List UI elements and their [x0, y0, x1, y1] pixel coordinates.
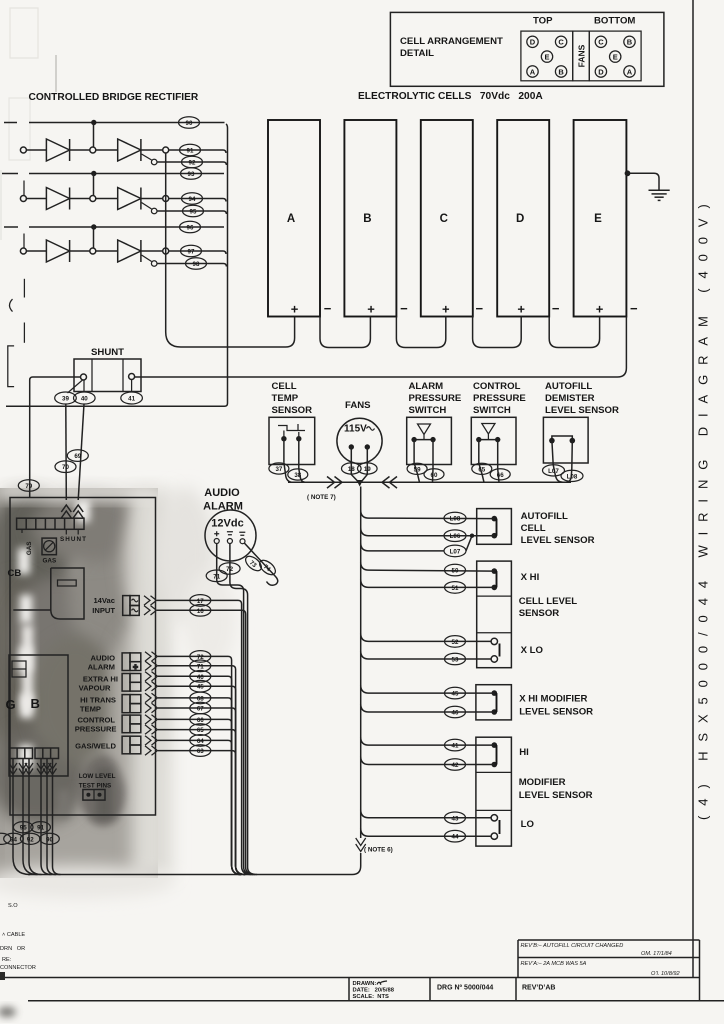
alarm pressure leads: [414, 440, 433, 483]
wire: [141, 250, 163, 252]
wire 67: [158, 708, 245, 875]
svg-text:LOW LEVEL: LOW LEVEL: [79, 773, 116, 780]
wire number oval 92: [182, 156, 203, 168]
wire 53: [361, 651, 491, 659]
svg-text:X HI MODIFIER: X HI MODIFIER: [519, 694, 587, 705]
svg-text:( NOTE 6): ( NOTE 6): [364, 847, 393, 854]
svg-text:53: 53: [452, 657, 459, 664]
wire 91: [169, 150, 226, 153]
svg-text:CONNECTOR: CONNECTOR: [0, 965, 36, 971]
svg-text:GAS/WELD: GAS/WELD: [75, 742, 116, 751]
svg-text:PRESSURE: PRESSURE: [75, 725, 117, 734]
wire 44: [361, 828, 491, 836]
fans leads: [351, 447, 367, 482]
svg-text:SHUNT: SHUNT: [60, 536, 86, 543]
svg-text:60: 60: [431, 472, 438, 479]
node circle row3: [90, 248, 96, 254]
svg-text:CELL: CELL: [521, 523, 546, 534]
wire 70 oval: [55, 461, 76, 473]
svg-text:CONTROL: CONTROL: [473, 381, 521, 392]
svg-text:HI: HI: [519, 747, 529, 758]
thyristor Q2: [118, 188, 141, 210]
wire 39 oval: [55, 392, 77, 404]
svg-text:REV’D’AB: REV’D’AB: [522, 985, 555, 992]
svg-text:94: 94: [189, 196, 196, 203]
wire 92: [157, 162, 226, 165]
shunt terminal strip: [17, 518, 84, 529]
cell arrangement: fans strip: [573, 31, 590, 81]
drawn/date/scale: [353, 981, 395, 1000]
svg-text:19: 19: [364, 466, 371, 473]
svg-text:37: 37: [275, 466, 282, 473]
svg-text:59: 59: [414, 466, 421, 473]
x hi modifier level sensor: [476, 685, 593, 720]
svg-text:ALARM: ALARM: [88, 663, 115, 672]
svg-text:D: D: [516, 213, 524, 225]
relay module: [13, 568, 84, 619]
wire 60 oval: [424, 469, 444, 480]
wire 18 oval: [342, 463, 362, 474]
cell E negative return wire to shunt: [135, 317, 627, 378]
wire 79 oval: [18, 480, 39, 492]
wire L07 oval: [543, 465, 565, 476]
svg-text:C: C: [558, 38, 564, 47]
svg-text:B: B: [627, 38, 633, 47]
wire 71: [158, 666, 245, 875]
svg-text:67: 67: [197, 706, 204, 713]
svg-text:SWITCH: SWITCH: [409, 405, 447, 416]
x lo contact: [491, 638, 543, 662]
wire 69 oval: [67, 450, 88, 462]
wire 50: [361, 562, 495, 571]
svg-text:˄ CABLE: ˄ CABLE: [2, 932, 25, 938]
title block frame: [0, 940, 724, 1001]
alarm pressure switch: [407, 381, 462, 465]
gas sensor symbol: [42, 538, 56, 564]
block labels EXTRA HI VAPOUR: [79, 675, 118, 693]
control pressure terminal block: [122, 715, 141, 733]
svg-text:L07: L07: [548, 468, 559, 475]
svg-text:E: E: [544, 52, 549, 61]
DC+ bus from thyristors to cell A: [166, 153, 295, 347]
left margin mark: [0, 972, 5, 980]
left margin notes: [0, 903, 36, 971]
shunt sense leads to ovals: [68, 380, 132, 394]
svg-text:65: 65: [478, 466, 485, 473]
svg-text:TEMP: TEMP: [80, 705, 101, 714]
scan noise texture of cabinet panel: [0, 485, 236, 898]
arrows audio alarm: [145, 652, 158, 671]
svg-text:90: 90: [186, 120, 193, 127]
autofill demister leads: [552, 441, 572, 483]
svg-text:GAS: GAS: [43, 558, 57, 565]
svg-text:LEVEL SENSOR: LEVEL SENSOR: [521, 535, 595, 546]
arrows control pressure: [145, 715, 158, 735]
wire 16: [157, 610, 255, 874]
cell B: [344, 120, 408, 317]
svg-text:95: 95: [190, 209, 197, 216]
svg-text:91: 91: [187, 148, 194, 155]
svg-text:−: −: [400, 301, 408, 316]
arrows 14Vac: [144, 596, 157, 615]
wire number oval 98: [186, 258, 207, 270]
svg-text:REV’B:– AUTOFILL CIRCUIT CHANG: REV’B:– AUTOFILL CIRCUIT CHANGED: [521, 943, 624, 949]
wire number oval 94: [182, 193, 203, 205]
svg-text:50: 50: [452, 568, 459, 575]
svg-text:CELL: CELL: [272, 381, 297, 392]
diode D1 anode terminal: [20, 147, 26, 153]
cell level sensor box: [477, 561, 578, 668]
svg-text:CB: CB: [8, 568, 22, 579]
svg-text:C: C: [598, 38, 604, 47]
hi trans temp terminal block: [122, 695, 141, 713]
svg-text:BOTTOM: BOTTOM: [594, 16, 635, 27]
wire number oval 95: [183, 205, 204, 217]
diode D2 anode stub: [23, 181, 25, 196]
wire number oval 90: [179, 117, 200, 129]
diode D2 anode terminal: [20, 196, 26, 202]
thyristor Q3: [118, 240, 141, 262]
audio alarm spare wire with hook: [244, 543, 277, 585]
cable run to note 6: [28, 853, 361, 875]
wire 37 oval: [269, 463, 289, 474]
lo contact: [491, 815, 534, 840]
node: wire 96 junction: [91, 224, 96, 229]
thyristor Q1: [118, 139, 141, 161]
svg-text:65: 65: [197, 727, 204, 734]
wire: [70, 198, 90, 200]
gas/weld terminal block: [122, 736, 141, 754]
low level test pins: [79, 773, 116, 800]
svg-text:X LO: X LO: [521, 645, 544, 656]
svg-text:95: 95: [20, 825, 27, 832]
svg-text:97: 97: [188, 249, 195, 256]
left edge bracket 2: [8, 346, 14, 387]
svg-text:17: 17: [197, 598, 204, 605]
svg-text:+: +: [442, 302, 450, 317]
lower terminal strip left: [9, 748, 32, 759]
extra hi vapour terminal block: [122, 674, 141, 692]
svg-text:14Vac: 14Vac: [93, 596, 115, 605]
svg-text:X HI: X HI: [521, 572, 540, 583]
wire: [26, 198, 46, 200]
svg-text:DETAIL: DETAIL: [400, 48, 434, 59]
node L06/L07: [470, 534, 474, 538]
svg-text:D: D: [530, 38, 536, 47]
wire: [70, 149, 90, 151]
svg-text:FANS: FANS: [345, 400, 371, 411]
svg-text:L07: L07: [450, 548, 461, 555]
svg-text:115V: 115V: [344, 424, 367, 435]
node: DC+ bus tap row2: [163, 196, 169, 202]
svg-text:G: G: [6, 697, 16, 712]
svg-text:79: 79: [25, 483, 32, 490]
phase 3 supply wire: [4, 226, 224, 228]
cell D: [497, 120, 560, 317]
block labels CONTROL PRESSURE: [75, 716, 117, 734]
svg-text:SHUNT: SHUNT: [91, 347, 124, 358]
svg-text:DEMISTER: DEMISTER: [545, 393, 595, 404]
arrows gas/weld: [145, 736, 158, 756]
svg-text:( NOTE 7): ( NOTE 7): [307, 494, 336, 501]
wire 41: [361, 737, 495, 745]
wire 73 oval: [243, 554, 264, 574]
svg-text:43: 43: [452, 815, 459, 822]
svg-text:L06: L06: [450, 533, 461, 540]
wire 52: [361, 633, 491, 641]
wire number oval 91: [180, 144, 201, 156]
wire: [141, 198, 163, 200]
cell arrangement: top stack box: [521, 31, 573, 81]
svg-text:B: B: [31, 696, 40, 711]
modifier level sensor box: [476, 737, 593, 846]
cell C: [421, 120, 484, 317]
svg-text:45: 45: [452, 691, 459, 698]
sensor bus wire: [288, 481, 571, 483]
cell temp sensor: [269, 381, 315, 465]
wire: [96, 198, 118, 200]
cell A: [268, 120, 332, 317]
wire: [26, 250, 46, 252]
14Vac terminal block: [123, 596, 140, 616]
svg-text:+: +: [367, 302, 375, 317]
wire: [96, 250, 118, 252]
svg-text:52: 52: [452, 639, 459, 646]
svg-text:CELL ARRANGEMENT: CELL ARRANGEMENT: [400, 36, 503, 47]
shunt right terminal: [129, 374, 135, 380]
svg-text:69: 69: [74, 453, 81, 460]
svg-text:38: 38: [294, 472, 301, 479]
strip tails: [22, 529, 78, 534]
wire 38 oval: [288, 469, 308, 480]
wire: [26, 149, 46, 151]
svg-text:41: 41: [452, 743, 459, 750]
cell E: [574, 120, 638, 317]
svg-text:46: 46: [197, 674, 204, 681]
node circle row1: [90, 147, 96, 153]
node: wire 93 junction: [91, 171, 96, 176]
diode D1: [46, 139, 69, 161]
svg-text:A: A: [287, 213, 295, 225]
svg-text:FANS: FANS: [577, 44, 587, 67]
wire 17: [157, 600, 251, 874]
svg-text:ALARM: ALARM: [409, 381, 444, 392]
svg-text:−: −: [630, 301, 638, 316]
wire 64: [158, 740, 241, 874]
junction arrow at bus: [356, 480, 363, 487]
wire 63: [158, 751, 245, 875]
node: wire 90 junction: [91, 120, 96, 125]
svg-text:REV’A:– 2A MCB WAS 5A: REV’A:– 2A MCB WAS 5A: [521, 961, 587, 967]
left edge stubs below rectifier: [23, 279, 25, 343]
svg-text:18: 18: [348, 466, 355, 473]
control pressure leads: [479, 440, 499, 483]
wire 43: [361, 810, 491, 818]
gate lead Q2: [142, 203, 152, 210]
wire 95: [157, 211, 226, 214]
svg-text:68: 68: [197, 695, 204, 702]
svg-text:98: 98: [193, 261, 200, 268]
svg-text:A: A: [530, 67, 536, 76]
svg-text:B: B: [363, 213, 371, 225]
svg-text:12Vdc: 12Vdc: [211, 518, 243, 530]
wire number oval 97: [181, 245, 202, 257]
arrows hi trans temp: [145, 693, 158, 713]
wire 40 oval: [74, 392, 96, 404]
wire L06: [361, 528, 495, 536]
phase 2 supply wire: [2, 173, 224, 175]
svg-text:46: 46: [452, 710, 459, 717]
svg-text:DRG Nº 5000/044: DRG Nº 5000/044: [437, 985, 493, 992]
wire L08 oval: [561, 470, 583, 481]
wire number oval 93: [181, 168, 202, 180]
node: DC+ bus tap row1: [163, 147, 169, 153]
svg-text:S.O: S.O: [8, 903, 18, 909]
note 6 exit arrow: [356, 838, 366, 852]
diode D3 anode terminal: [20, 248, 26, 254]
wire 45: [158, 686, 245, 874]
rectifier output cable bundle down and left: [6, 124, 228, 406]
fans: [337, 400, 382, 464]
wire 46: [158, 676, 241, 874]
svg-text:E: E: [613, 52, 618, 61]
control pressure switch: [471, 381, 526, 465]
svg-text:VAPOUR: VAPOUR: [79, 684, 111, 693]
audio alarm: [203, 487, 256, 561]
svg-text:B: B: [558, 67, 564, 76]
shunt left terminal: [81, 374, 87, 380]
sensor bus drop (main loom down): [360, 487, 362, 839]
svg-text:TEMP: TEMP: [272, 393, 299, 404]
bottom left corner blob: [0, 1007, 16, 1017]
svg-text:DRN OR: DRN OR: [0, 946, 25, 952]
svg-text:D: D: [598, 67, 604, 76]
wire 97: [169, 251, 226, 254]
series link cell A- to cell B+: [320, 317, 370, 348]
wire 46: [361, 704, 495, 712]
wire 65: [158, 730, 245, 875]
svg-text:−: −: [552, 301, 560, 316]
series link cell C- to cell D+: [473, 317, 522, 348]
temp sensor leads: [284, 439, 305, 483]
block labels AUDIO ALARM: [88, 654, 116, 672]
bus chevron left: [382, 477, 397, 489]
cabinet enclosure: [10, 498, 156, 816]
svg-text:LEVEL SENSOR: LEVEL SENSOR: [519, 707, 593, 718]
wire 71 oval: [206, 570, 227, 582]
wire 72 oval: [219, 563, 240, 575]
audio alarm terminal block: [122, 653, 141, 671]
hi contact: [492, 742, 530, 767]
page border right: [692, 0, 694, 978]
wire number oval 96: [180, 221, 201, 233]
svg-text:LEVEL SENSOR: LEVEL SENSOR: [545, 405, 619, 416]
svg-text:−: −: [324, 301, 332, 316]
svg-text:A: A: [627, 67, 633, 76]
14Vac input label: [92, 596, 115, 615]
shunt: [74, 347, 141, 392]
shunt sense wire pair down to panel: [66, 404, 84, 500]
wire 74 oval: [257, 558, 278, 578]
svg-text:MODIFIER: MODIFIER: [519, 777, 566, 788]
svg-text:AUDIO: AUDIO: [204, 487, 240, 499]
wire from shunt left terminal to panel: [30, 377, 81, 498]
block labels HI TRANS TEMP: [80, 696, 116, 714]
svg-text:DRAWN:: DRAWN:: [353, 981, 377, 987]
wire 68: [158, 698, 241, 875]
wire ovals under cabinet: [13, 822, 33, 833]
svg-text:SENSOR: SENSOR: [272, 405, 313, 416]
svg-text:TOP: TOP: [533, 16, 553, 27]
node circle row2: [90, 196, 96, 202]
svg-text:40: 40: [81, 396, 88, 403]
svg-text:42: 42: [452, 762, 459, 769]
svg-text:RE:: RE:: [2, 957, 12, 963]
diode D2: [46, 188, 69, 210]
wire: [96, 149, 118, 151]
svg-text:41: 41: [128, 396, 135, 403]
wire 51: [361, 579, 495, 587]
x hi contact: [492, 568, 540, 590]
svg-text:LEVEL SENSOR: LEVEL SENSOR: [519, 790, 593, 801]
wire 45: [361, 685, 495, 693]
svg-text:LO: LO: [521, 819, 535, 830]
drop to diode D3: [93, 227, 95, 248]
svg-text:O’l. 10/8/92: O’l. 10/8/92: [651, 971, 680, 977]
svg-text:72: 72: [226, 566, 233, 573]
arrow into panel (left): [61, 505, 71, 518]
gate terminal Q2: [151, 208, 157, 214]
svg-text:−: −: [476, 301, 484, 316]
wire 72: [158, 656, 241, 874]
series link cell D- to cell E+: [549, 317, 599, 348]
wire 19 oval: [358, 463, 378, 474]
cell arrangement detail box: [390, 12, 664, 86]
wire L07: [361, 536, 472, 551]
svg-text:39: 39: [62, 396, 69, 403]
svg-text:SWITCH: SWITCH: [473, 405, 511, 416]
svg-text:SCALE: NTS: SCALE: NTS: [353, 994, 390, 1000]
gate terminal Q3: [151, 261, 157, 267]
wire 98: [157, 264, 226, 267]
wire 66: [158, 719, 241, 874]
svg-text:AUTOFILL: AUTOFILL: [545, 381, 592, 392]
svg-text:(4) HSX5000/044 WIRING DIAGRAM: (4) HSX5000/044 WIRING DIAGRAM (400V): [696, 194, 711, 820]
bus chevron right: [327, 477, 342, 489]
svg-text:CONTROLLED BRIDGE RECTIFIER: CONTROLLED BRIDGE RECTIFIER: [29, 92, 199, 103]
audio alarm - wire: [230, 544, 257, 875]
svg-text:L08: L08: [450, 516, 461, 523]
svg-text:+: +: [596, 302, 604, 317]
autofill demister level sensor: [543, 381, 619, 463]
svg-text:C: C: [440, 213, 448, 225]
svg-text:93: 93: [188, 171, 195, 178]
svg-text:DATE: 20/5/88: DATE: 20/5/88: [353, 988, 395, 994]
svg-text:51: 51: [452, 585, 459, 592]
outgoing arrows below strips: [9, 763, 57, 775]
svg-text:+: +: [291, 302, 299, 317]
svg-text:TEST PINS: TEST PINS: [79, 783, 112, 790]
svg-text:66: 66: [497, 472, 504, 479]
svg-text:ELECTROLYTIC CELLS 70Vdc 2: ELECTROLYTIC CELLS 70Vdc 200A: [358, 91, 543, 102]
wire L08: [361, 510, 495, 518]
wire 65 oval: [472, 463, 492, 474]
svg-text:+: +: [517, 302, 525, 317]
cabinet outgoing wires to cable run: [13, 759, 61, 875]
svg-text:92: 92: [189, 160, 196, 167]
svg-text:91: 91: [37, 825, 44, 832]
svg-text:SENSOR: SENSOR: [519, 608, 560, 619]
